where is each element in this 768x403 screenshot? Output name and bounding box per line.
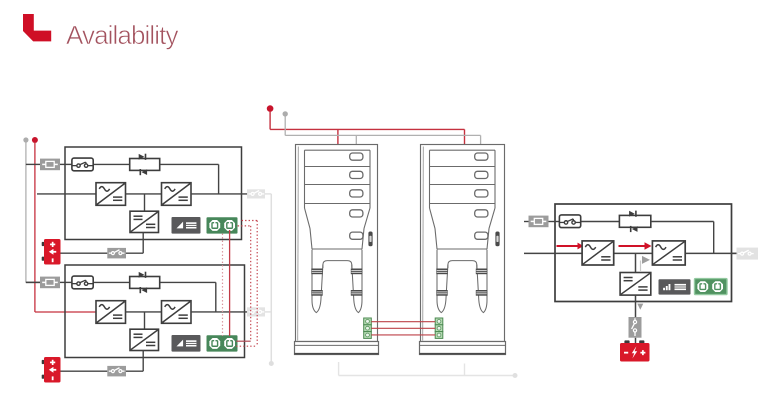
wire: UPS2 output to bus (light) xyxy=(265,311,271,313)
battery BAT3 xyxy=(620,340,650,361)
fuse F3 (input) xyxy=(529,216,549,228)
battery BAT1 xyxy=(42,239,61,265)
output breaker UPS3 xyxy=(737,248,759,260)
display module UPS2 xyxy=(172,335,201,352)
battery breaker QB2 xyxy=(107,366,126,377)
switch Q2 (bypass switch) xyxy=(72,276,93,289)
wire: battery 1 link xyxy=(61,233,144,254)
switch Q3 (bypass switch) xyxy=(559,215,580,228)
wire: UPS1 bypass to output xyxy=(160,164,219,194)
rack 1 module 1 handle xyxy=(350,153,363,160)
comm ports UPS3 (green) xyxy=(695,279,728,295)
wire: UPS3 bypass input xyxy=(524,221,619,223)
rack 1 base plinth xyxy=(294,342,378,355)
logo (red L mark) xyxy=(23,14,51,41)
wire: UPS1 output xyxy=(191,193,247,195)
inverter U2B (DC/AC) xyxy=(162,301,192,324)
display module UPS1 xyxy=(172,217,201,234)
wire: UPS1 mains input xyxy=(26,163,130,165)
rack 2 fork clamps upper xyxy=(436,269,487,275)
rack 2 door latch xyxy=(495,232,499,247)
wire: parallel bus link 4 (dashed loop) xyxy=(236,221,257,347)
rectifier U3A (AC/DC) xyxy=(582,241,614,265)
wire: red rack feeder xyxy=(270,112,464,150)
flow arrow: rectifier to inverter (red) xyxy=(619,242,652,250)
rack 1 module 3 handle xyxy=(350,190,363,197)
wire: UPS3 output stub xyxy=(732,252,737,254)
rack 1 module 4 handle xyxy=(350,210,363,217)
rack 2 module column xyxy=(430,150,496,249)
wire: inter-rack battery links (red) xyxy=(371,322,435,335)
flow arrow: mains to rectifier (red) xyxy=(557,243,584,250)
node: mains feeder dot (gray) xyxy=(23,137,28,142)
flow arrow: charger branch (gray) xyxy=(641,256,651,271)
node: rack output dot xyxy=(513,373,518,378)
rack 2 module 5 handle xyxy=(475,232,488,239)
rectifier U2A (AC/DC) xyxy=(96,301,126,324)
output breaker UPS2 xyxy=(247,307,265,316)
UPS1 enclosure xyxy=(65,147,242,240)
diode pair D3 (static bypass) xyxy=(619,211,650,233)
switch Q1 (bypass switch) xyxy=(72,158,93,171)
wire: gray mains bus xyxy=(26,142,40,282)
wire: UPS2 output xyxy=(191,311,247,313)
rack 2 battery fork stand xyxy=(437,250,487,313)
rack 2 battery terminal blocks (green) xyxy=(435,318,443,338)
UPS3 enclosure xyxy=(555,204,732,302)
wire: UPS3 battery leg xyxy=(635,295,637,343)
wire: UPS3 DC link down xyxy=(635,253,637,272)
rack 2 module 1 handle xyxy=(475,153,488,160)
battery breaker QB3 xyxy=(629,317,642,338)
rack 1 battery terminal blocks (green) xyxy=(364,318,372,338)
battery BAT2 xyxy=(42,357,61,383)
rack 1 module 5 handle xyxy=(350,232,363,239)
diode pair D2 (static bypass) xyxy=(130,272,160,294)
rack 2 base plinth xyxy=(419,342,505,355)
charger U3C (DC/DC) xyxy=(620,273,651,296)
charger U1C (DC/DC) xyxy=(130,211,159,232)
comm ports UPS1 (green) xyxy=(207,217,238,233)
rack cabinet 2: frame xyxy=(421,145,505,342)
rack cabinet 1: frame xyxy=(296,145,378,342)
wire: UPS3 bypass to output xyxy=(651,222,714,254)
wire: gray rack feeder xyxy=(285,116,480,144)
fuse F1 (input) xyxy=(40,159,60,171)
rack 1 module column xyxy=(305,150,371,249)
wire: UPS2 DC link xyxy=(126,312,162,329)
wire: parallel bus link 3 (dashed loop) xyxy=(236,226,251,341)
inverter U1B (DC/AC) xyxy=(162,183,192,206)
wire: UPS2 mains input xyxy=(26,281,130,283)
wire: common output bus xyxy=(270,194,272,362)
node: rack feeder dot (red) xyxy=(267,105,274,112)
fuse F2 (input) xyxy=(40,277,60,289)
inverter U3B (DC/AC) xyxy=(652,241,685,265)
wire: parallel bus link 2 (pale dashed) xyxy=(222,234,224,336)
rack 2 module 3 handle xyxy=(475,190,488,197)
output breaker UPS1 xyxy=(247,189,265,198)
wire: UPS3 mains line xyxy=(524,252,737,254)
display module UPS3 xyxy=(659,279,691,294)
rack 1 door latch xyxy=(368,232,372,247)
flow arrow: to battery (gray) xyxy=(637,304,643,310)
rack 1 side panel edge xyxy=(297,147,300,341)
charger U2C (DC/DC) xyxy=(130,329,159,350)
rack 2 fork clamps lower xyxy=(436,290,487,296)
wire: UPS1 DC link xyxy=(126,194,162,211)
node: rack feeder dot (gray) xyxy=(283,111,288,116)
wire: red bypass bus xyxy=(35,142,97,312)
rectifier U1A (AC/DC) xyxy=(96,183,126,206)
wire: UPS2 bypass to output xyxy=(160,282,216,312)
rack 1 battery fork stand xyxy=(312,250,362,313)
wire: battery 2 link xyxy=(61,351,144,372)
diode pair D1 (static bypass) xyxy=(130,154,160,176)
rack 1 fork clamps lower xyxy=(311,290,362,296)
wire: rack output bracket (light) xyxy=(339,362,513,376)
wire: UPS1 output to bus (light) xyxy=(265,193,271,195)
wire: parallel bus link 1 (solid red) xyxy=(229,230,231,336)
rack 1 fork clamps upper xyxy=(311,269,362,275)
UPS2 enclosure xyxy=(65,265,245,358)
node: bypass feeder dot (red) xyxy=(32,137,38,143)
rack 2 module 4 handle xyxy=(475,210,488,217)
rack 2 module 2 handle xyxy=(475,171,488,178)
svg-text:Availability: Availability xyxy=(66,20,178,50)
node: output bus terminal dot xyxy=(269,361,274,366)
wire: UPS1 rectifier input xyxy=(37,193,96,195)
rack 2 side panel edge xyxy=(422,147,425,341)
rack 1 module 2 handle xyxy=(350,171,363,178)
comm ports UPS2 (green) xyxy=(207,335,238,351)
battery breaker QB1 xyxy=(107,248,126,259)
